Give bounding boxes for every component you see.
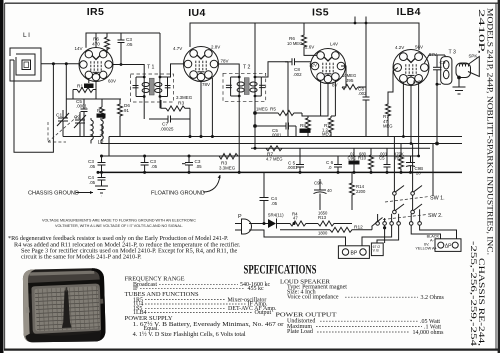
svg-text:14V: 14V [75, 46, 83, 51]
loudspeaker SPK voice coil [456, 63, 471, 78]
svg-text:.0001: .0001 [76, 104, 88, 109]
value label C7 .00025 [160, 122, 174, 132]
svg-text:IS5: IS5 [312, 7, 329, 19]
value label C8 .002 [293, 67, 302, 77]
node T2 winding dots [238, 76, 257, 98]
svg-text:.0: .0 [328, 165, 332, 170]
svg-text:R8: R8 [300, 123, 306, 128]
resistor R14 2200 vertical [350, 179, 355, 200]
label BLACK A- [427, 235, 440, 243]
resistor R12 1800 zigzag [280, 227, 372, 232]
transformer T2 windings and caps [226, 77, 265, 96]
capacitor C9B 20 [406, 156, 415, 172]
node switch junction [383, 226, 386, 229]
svg-text:T 3: T 3 [449, 50, 457, 56]
wire R9 top [400, 144, 402, 156]
resistor D6 zigzag [118, 102, 123, 119]
loudspeaker SPK cone [468, 57, 479, 77]
resistor R3 3.3MEG bottom zigzag [219, 154, 238, 160]
wire R5 ends [254, 112, 308, 116]
capacitor C3 b [141, 156, 149, 172]
resistor R1 100K (label) [77, 84, 94, 90]
capacitor C6 .02 [334, 156, 342, 172]
ground chassis symbol [95, 186, 108, 196]
svg-text:2410P,: 2410P, [477, 9, 487, 54]
svg-text:CHASSIS GROUND: CHASSIS GROUND [28, 191, 79, 197]
resistor R7 4.7MEG on screen bus [266, 146, 282, 151]
capacitor C5 .0001 mid [254, 123, 296, 137]
value label R12 1800 [318, 225, 363, 236]
wire 1LB4 grid feed [387, 136, 389, 138]
capacitor C9 tone [433, 55, 442, 84]
value label 1MEG R5 [256, 107, 276, 112]
svg-text:ILB4: ILB4 [397, 6, 421, 18]
svg-text:14,000 ohms: 14,000 ohms [413, 330, 445, 336]
svg-text:R3: R3 [178, 101, 184, 107]
value label C5 .0001 [76, 99, 88, 109]
capacitor C7 .00025 [149, 108, 190, 136]
svg-text:POWER SUPPLY: POWER SUPPLY [125, 315, 173, 322]
connector AP battery plug [435, 239, 461, 252]
value label R6 10MEG [287, 36, 302, 46]
capacitor C3 top (plates) [118, 33, 125, 65]
transformer T1 shield dashed box [131, 74, 174, 102]
svg-text:47: 47 [293, 216, 298, 221]
resistor R9 470K vertical [399, 155, 404, 172]
inductor L2 oscillator coil [91, 118, 103, 144]
svg-text:3.3MEG: 3.3MEG [176, 95, 193, 100]
svg-text:C1: C1 [56, 113, 62, 119]
wire plug return [249, 230, 346, 246]
value label R8 680K [300, 123, 311, 133]
wire antenna to 1R5 grid [41, 63, 80, 65]
wire voice coil to ground [458, 76, 461, 87]
svg-text:3.2 Ohms: 3.2 Ohms [421, 295, 445, 301]
note voltmeter measurement [42, 218, 196, 229]
wire speaker field drop [432, 144, 434, 197]
capacitor C5 .0001 [81, 107, 88, 118]
svg-text:1800: 1800 [318, 231, 328, 236]
wire 1LB4 pin drops [403, 82, 418, 156]
wire main floating-ground bus [98, 171, 462, 173]
svg-text:R5: R5 [270, 107, 276, 112]
svg-text:2200: 2200 [356, 189, 366, 194]
svg-text:circuit is the same for Models: circuit is the same for Models 241-P and… [21, 254, 142, 261]
value label C6 .02 [326, 160, 334, 170]
transformer T2 core [244, 78, 249, 95]
svg-text:470: 470 [92, 42, 100, 47]
capacitor C2 variable [74, 112, 86, 130]
value label D6 [124, 103, 130, 113]
value label 10MEG J95 [342, 73, 356, 83]
svg-text:POWER OUTPUT: POWER OUTPUT [276, 312, 337, 319]
svg-text:SW 2.: SW 2. [428, 213, 443, 219]
svg-text:R2: R2 [97, 108, 103, 113]
spec right column [276, 279, 445, 337]
transformer T3 output [437, 55, 452, 84]
label CHASSIS GROUND [28, 191, 93, 197]
capacitor C9A electrolytic [314, 186, 327, 200]
svg-text:5R4(11): 5R4(11) [268, 213, 284, 218]
wire bus B minus line [125, 143, 462, 145]
value label C5 .0001 mid [271, 128, 282, 138]
wire gang capacitor frame dashed [48, 114, 80, 142]
svg-text:2.6V: 2.6V [305, 45, 314, 50]
value label C3 .05 a [88, 159, 96, 169]
junction dots top rail [354, 17, 368, 25]
label FLOATING GROUND [151, 175, 221, 197]
resistor R5 1MEG horizontal [255, 111, 302, 116]
svg-text:.00025: .00025 [160, 127, 174, 132]
value label C9C .02 [348, 152, 357, 161]
capacitor C5 .001 [384, 148, 391, 172]
spec leader dashes right [316, 297, 422, 332]
node antenna junction dots [52, 62, 68, 65]
resistor R8 680K vertical [306, 118, 311, 137]
wire bus screen line [251, 147, 430, 149]
svg-text:40: 40 [327, 188, 332, 193]
wire T2 B plus entry [254, 23, 256, 77]
capacitor C8 b coupling [363, 97, 370, 137]
svg-text:680: 680 [359, 152, 367, 157]
wire R6 bottom to grid [304, 51, 317, 56]
resistor R2 680 zigzag [100, 107, 105, 119]
wire oscillator grid drop [65, 64, 67, 118]
wire antenna return left [14, 60, 53, 152]
svg-text:.0001: .0001 [287, 165, 298, 170]
svg-text:T 1: T 1 [147, 65, 155, 71]
svg-text:YELLOW A+: YELLOW A+ [415, 247, 437, 251]
value label R9 470K [394, 152, 404, 161]
resistor R13 1650 zigzag [318, 221, 352, 226]
svg-text:T 2: T 2 [243, 65, 251, 71]
svg-text:.05: .05 [89, 164, 96, 169]
wire R3 left [161, 100, 166, 108]
svg-text:91: 91 [124, 108, 129, 113]
wire R10 top [370, 148, 372, 155]
capacitor C4 b line cap [260, 172, 269, 223]
svg-text:.05: .05 [271, 201, 278, 206]
resistor R7 47MEG vertical [386, 100, 391, 120]
svg-text:-255,-256,-259,-254: -255,-256,-259,-254 [469, 241, 479, 347]
loop antenna L1 [10, 48, 41, 81]
wire 1U4 plate to T2 [219, 64, 240, 77]
wire 1S5 pin drops [321, 80, 336, 116]
svg-text:VOLTMETER, WITH A LINE VOL: VOLTMETER, WITH A LINE VOLTAGE OF I I7 V… [55, 223, 183, 228]
svg-text:J95: J95 [346, 78, 354, 83]
capacitor C8 det (plates) [285, 58, 311, 65]
svg-text:4.7V: 4.7V [173, 46, 182, 51]
capacitor C4 chassis [98, 172, 106, 186]
wire bus AVC line [109, 136, 462, 138]
svg-text:L I: L I [23, 32, 30, 39]
resistor R1 zigzag [77, 88, 93, 93]
transformer T1 core [149, 78, 154, 95]
resistor R3 3.3MEG horizontal [166, 106, 190, 111]
svg-text:R12: R12 [354, 225, 363, 231]
wire T1 entries [121, 33, 160, 77]
tube V2 1U4 [184, 47, 219, 82]
wire rectifier row [249, 223, 268, 225]
wire B plus return drop [436, 84, 439, 145]
value label C4 .05 b [271, 196, 278, 206]
svg-text:SPK: SPK [469, 54, 478, 59]
svg-text:32V: 32V [309, 63, 317, 68]
tube V1 1R5 [79, 48, 113, 82]
value label R3 3.3MEG bottom [219, 161, 236, 171]
wire switch drops to connectors [362, 225, 457, 246]
svg-text:56V: 56V [415, 45, 423, 50]
wire 1S5 diode plate net [341, 66, 366, 97]
wire plug to rectifier [251, 226, 253, 228]
wire T1 primary bottom drop [144, 97, 160, 120]
resistor R10 680 vertical [369, 155, 374, 172]
svg-text:MEG: MEG [322, 132, 332, 137]
svg-text:.0001: .0001 [271, 133, 282, 138]
value label 1650 R13 [318, 211, 328, 221]
svg-text:SW 1.: SW 1. [430, 196, 445, 202]
value label R7 4.7 MEG [266, 152, 283, 162]
wire L2 bottoms to bus [91, 137, 125, 157]
value label R7 47 MEG [383, 114, 393, 129]
switch SW2 contacts [393, 204, 422, 214]
svg-text:.002: .002 [293, 72, 302, 77]
photo radio cabinet [23, 268, 106, 342]
spec leader dashes left [140, 284, 253, 312]
svg-text:.02: .02 [349, 152, 355, 157]
resistor R9 10MEG horizontal [342, 85, 358, 90]
wire switch risers [378, 137, 420, 222]
connector battery tap block [371, 243, 383, 256]
svg-text:78V: 78V [221, 59, 229, 64]
wire C8b top to rail [365, 23, 367, 97]
resistor R6 10MEG at 1S5 [302, 33, 307, 51]
svg-text:20: 20 [416, 171, 421, 176]
value label R14 2200 [356, 184, 366, 194]
node R4 junction [293, 222, 296, 225]
svg-text:2.8V: 2.8V [211, 45, 220, 50]
svg-text:78V: 78V [202, 82, 210, 87]
ground speaker symbol [453, 87, 466, 94]
value label R2 680 [97, 108, 106, 118]
value label C8 .002 b [358, 87, 367, 97]
switch SW1 link dashed [385, 197, 429, 203]
svg-text:3.3MEG: 3.3MEG [219, 166, 236, 171]
svg-text:455 kc: 455 kc [248, 286, 265, 292]
value label C4 .05 [88, 175, 96, 185]
svg-text:.05: .05 [126, 42, 133, 47]
value label 3.3MEG R3 [176, 95, 193, 107]
value label R7 1.2MEG [322, 123, 332, 137]
value label R4 47 [292, 212, 298, 221]
svg-text:.001: .001 [379, 152, 388, 157]
capacitor C3 c [182, 156, 193, 172]
wire T2 secondary to 1S5 diode [261, 62, 288, 77]
connector P power plug [235, 219, 252, 234]
svg-text:60V: 60V [108, 79, 116, 84]
svg-text:C9A: C9A [314, 181, 323, 186]
svg-text:4.2V: 4.2V [395, 45, 404, 50]
transformer T2 shield dashed box [223, 73, 266, 101]
svg-text:IR5: IR5 [87, 6, 105, 18]
switch lower contact row [376, 222, 422, 226]
switch SW2 link dashed [383, 215, 427, 220]
wire C8 left drop [287, 62, 289, 137]
diode SR selenium rectifier [268, 219, 277, 229]
svg-text:1MEG: 1MEG [256, 107, 268, 112]
wire T2 drops [239, 96, 255, 172]
wire bus filament line [102, 155, 421, 157]
svg-text:Output: Output [255, 310, 272, 316]
value label C3 .05 [126, 37, 133, 47]
svg-text:470K: 470K [394, 152, 404, 157]
wire R6 bottom to screen [106, 48, 108, 53]
wire 1U4 screen drop [200, 81, 202, 137]
svg-text:FLOATING GROUND: FLOATING GROUND [151, 191, 205, 197]
wire 1R5 plate out [113, 64, 121, 66]
wire T1 secondary to 1U4 grid [168, 64, 184, 77]
svg-text:R13: R13 [318, 215, 327, 220]
value label C5 .0001 low [287, 161, 298, 171]
wire 1U4 cathode drop [211, 78, 213, 137]
svg-text:SPECIFICATIONS: SPECIFICATIONS [244, 263, 317, 277]
svg-text:C2: C2 [74, 115, 80, 121]
svg-text:V. B: V. B [373, 249, 380, 253]
node 1R5 plate dot [120, 63, 123, 66]
value label SR4(11) [268, 213, 284, 221]
svg-text:ΔP: ΔP [445, 244, 452, 250]
value label C3 .05 c [195, 159, 203, 169]
capacitor C9C [349, 148, 359, 172]
svg-text:.05: .05 [196, 164, 203, 169]
node T1 winding dots [143, 76, 162, 98]
node plug junction [263, 222, 266, 225]
wire C9A R14 tops [320, 172, 352, 210]
node 1LB4 drop dots [402, 135, 420, 157]
wire R6 top to rail [303, 23, 305, 33]
svg-text:A-: A- [430, 239, 435, 243]
switch lower arm [372, 218, 383, 227]
svg-text:VOLTAGE MEASUREMENTS ARE MA: VOLTAGE MEASUREMENTS ARE MADE TO FLOATIN… [42, 218, 196, 223]
wire osc net verticals [63, 118, 120, 137]
svg-text:8V2: 8V2 [413, 80, 422, 85]
value label R10 680 [358, 152, 367, 161]
svg-text:Voice coil impedance: Voice coil impedance [287, 295, 339, 301]
svg-text:IU4: IU4 [188, 7, 206, 19]
wire oscillator section net [66, 82, 121, 108]
note R6 production paragraph [8, 235, 241, 261]
svg-text:4. 1½ V. D Size Flashlight Cel: 4. 1½ V. D Size Flashlight Cells, 6 Volt… [133, 331, 246, 338]
scan edge left black band [0, 0, 4, 353]
wire 1R5 top net [86, 33, 160, 48]
capacitor C3 a (bypass) [98, 156, 106, 172]
svg-text:8V: 8V [332, 83, 338, 88]
svg-text:4.7 MEG: 4.7 MEG [266, 157, 283, 162]
junction dots buses [97, 135, 413, 174]
capacitor C5 .0001 low [296, 148, 304, 172]
wire R1 net [73, 79, 96, 100]
wire R7b net [388, 68, 398, 137]
value label C9B 20 [415, 166, 424, 176]
value label C5 .001 [379, 152, 388, 161]
wire top B+ rail [190, 23, 419, 50]
svg-text:BP: BP [351, 251, 358, 257]
transformer T1 windings and caps [133, 77, 171, 97]
svg-text:10 MEG: 10 MEG [287, 41, 302, 46]
tube V3 1S5 [311, 49, 346, 84]
value label C3 .05 b [150, 159, 158, 169]
node C9 bottom dot [436, 83, 439, 86]
spec left column [125, 276, 284, 338]
wire 1S5 screen bottom [308, 83, 331, 119]
tube V4 1LB4 [393, 50, 429, 86]
value label C9A 40 [314, 181, 332, 194]
capacitor C1 variable [57, 110, 69, 128]
svg-text:Plate Load: Plate Load [287, 329, 313, 335]
svg-text:.05: .05 [89, 180, 96, 185]
resistor R6 470 (zigzag) [105, 33, 110, 53]
resistor R4 47 zigzag [277, 221, 319, 226]
resistor R7 1.2MEG vertical [329, 118, 334, 137]
svg-text:L4V: L4V [330, 42, 338, 47]
wire 1LB4 plate to T3 [424, 55, 445, 63]
svg-text:.05: .05 [151, 164, 158, 169]
switch SW1 contacts [393, 186, 422, 196]
connector BP battery plug [338, 246, 369, 259]
